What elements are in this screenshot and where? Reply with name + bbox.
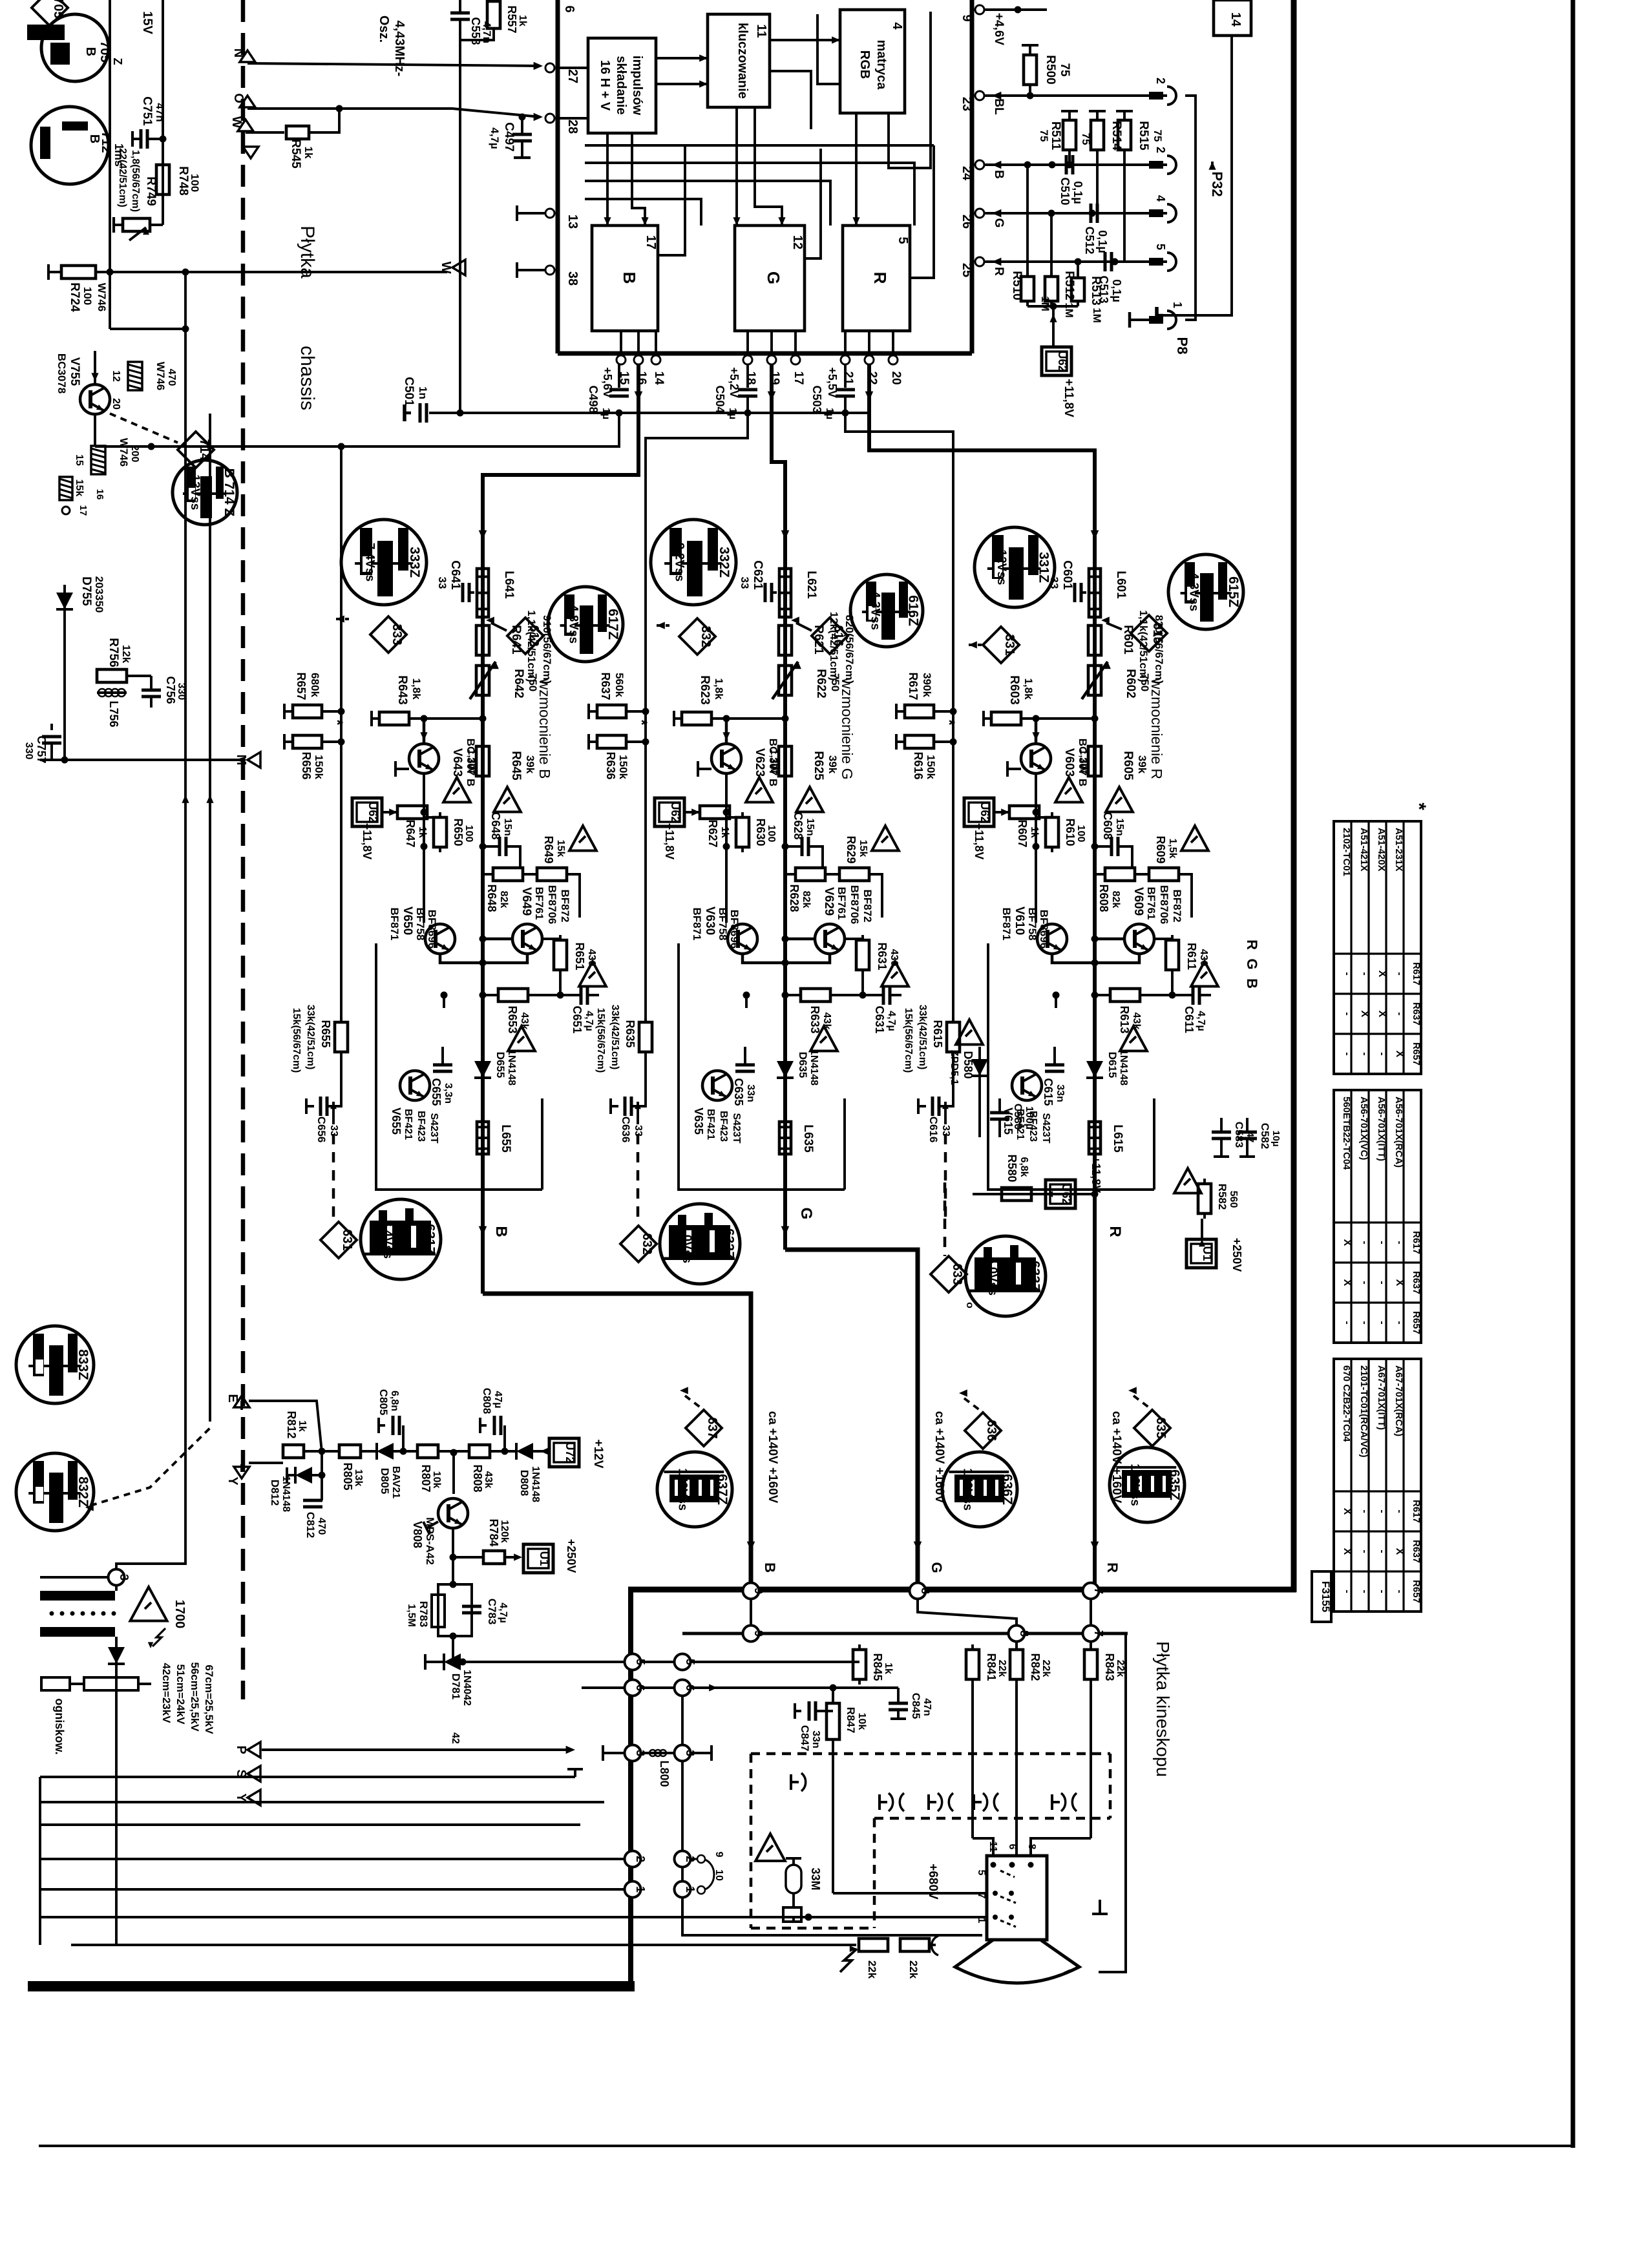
svg-text:15n: 15n [1114, 818, 1125, 836]
wire page bottom border [39, 2145, 1575, 2147]
inductor L641 [477, 569, 516, 617]
svg-text:616Z: 616Z [906, 595, 921, 626]
svg-text:820(56/67cm): 820(56/67cm) [843, 615, 856, 684]
svg-text:R616: R616 [912, 751, 925, 779]
svg-text:43k: 43k [483, 1471, 494, 1489]
svg-text:9: 9 [752, 1630, 765, 1637]
svg-text:R601: R601 [1121, 625, 1135, 655]
svg-text:R623: R623 [698, 675, 711, 704]
svg-text:C631: C631 [873, 1005, 886, 1033]
diode D635 [777, 1049, 819, 1086]
svg-text:ZPD5,1: ZPD5,1 [949, 1050, 960, 1085]
capacitor C558 [450, 0, 493, 417]
svg-text:V655: V655 [390, 1108, 403, 1135]
svg-text:BF8706: BF8706 [1158, 885, 1170, 924]
wire feedback G [646, 413, 748, 1022]
svg-text:+11,8V: +11,8V [361, 823, 374, 860]
wire dashed kineskop box [751, 1754, 1110, 1928]
svg-text:R842: R842 [1029, 1653, 1042, 1681]
svg-text:100: 100 [463, 825, 474, 843]
svg-text:1k: 1k [302, 147, 315, 159]
diamond 636 [959, 1389, 1001, 1449]
resistor R657 [284, 672, 346, 726]
wire base line B [409, 715, 487, 722]
resistor R749 [114, 148, 163, 240]
label wzmocnienie G [839, 677, 856, 779]
warning triangle kineskop [755, 1834, 785, 1861]
svg-text:1n: 1n [417, 386, 429, 399]
svg-text:+4,6V: +4,6V [992, 13, 1006, 46]
diamond 612 [486, 616, 543, 654]
diode D655 [474, 1049, 517, 1086]
potentiometer R602 [1082, 660, 1151, 700]
osc circle 333Z [341, 520, 427, 605]
IC U601 decoder right edge [970, 0, 975, 353]
capacitor C636 [611, 1057, 646, 1142]
svg-text:1: 1 [976, 1918, 987, 1924]
label wzmocnienie R [1148, 678, 1165, 779]
svg-text:R515: R515 [1137, 121, 1150, 151]
svg-text:A67-701X(ITT): A67-701X(ITT) [1376, 1365, 1387, 1430]
voltage box U1 b [523, 1539, 578, 1573]
svg-text:P: P [234, 1745, 248, 1754]
wire cathode line1 [40, 1914, 987, 1921]
osc circle 331Z [975, 527, 1055, 607]
svg-text:33: 33 [739, 577, 751, 589]
flag S [234, 1766, 260, 1781]
svg-text:42cm=23kV: 42cm=23kV [160, 1663, 173, 1723]
svg-text:BF8706: BF8706 [546, 885, 558, 924]
resistor R629 [825, 835, 882, 918]
svg-text:-: - [1359, 1281, 1370, 1284]
svg-text:+250V: +250V [565, 1539, 578, 1573]
svg-text:R649: R649 [542, 835, 555, 863]
connector 2 right [675, 1851, 697, 1867]
svg-text:C751: C751 [140, 96, 154, 126]
diamond 615 [1101, 615, 1167, 651]
svg-text:42: 42 [450, 1732, 461, 1744]
svg-text:705: 705 [51, 0, 65, 19]
svg-text:V623: V623 [753, 748, 766, 777]
svg-text:C808: C808 [481, 1388, 493, 1414]
svg-text:1k: 1k [417, 826, 428, 838]
warning triangle 1700 [131, 1587, 187, 1628]
transistor V623 [698, 719, 779, 786]
svg-text:4,7µ: 4,7µ [584, 1011, 595, 1031]
svg-text:17: 17 [78, 505, 89, 516]
resistor R545 [286, 109, 339, 169]
svg-text:3,4Vss: 3,4Vss [381, 1220, 394, 1259]
potentiometer R622 [772, 660, 841, 700]
resistor R783 parallel C783 [406, 1557, 509, 1640]
svg-text:5: 5 [896, 236, 910, 244]
block B decoder [592, 226, 658, 331]
connector 8 bottom [1009, 1626, 1031, 1642]
warning triangle B5 [508, 1026, 535, 1051]
wire cathode drop R [1031, 1838, 1091, 1857]
svg-text:4,7µ: 4,7µ [498, 1602, 509, 1622]
svg-text:680k: 680k [309, 673, 321, 697]
svg-text:B 714 Z: B 714 Z [222, 468, 237, 517]
svg-text:D635: D635 [797, 1052, 809, 1078]
svg-text:N: N [231, 48, 246, 58]
resistor focus a [41, 1677, 70, 1690]
capacitor C635 [732, 992, 756, 1106]
svg-text:F3155: F3155 [1320, 1581, 1332, 1612]
svg-text:V635: V635 [692, 1108, 705, 1135]
block H+V skladanie impulsow [588, 38, 656, 133]
svg-text:R653: R653 [506, 1005, 519, 1033]
diamond 616 [791, 616, 848, 654]
svg-text:C812: C812 [304, 1512, 317, 1538]
svg-text:C805: C805 [377, 1389, 390, 1416]
svg-text:R615: R615 [931, 1020, 944, 1047]
svg-text:22(42/51cm): 22(42/51cm) [117, 148, 128, 207]
capacitor C611 [1172, 985, 1211, 1033]
svg-text:S: S [234, 1769, 248, 1778]
svg-text:Y: Y [226, 1476, 240, 1486]
resistor R636 [589, 734, 649, 780]
wire G output stage box [679, 943, 785, 1190]
osc circle 637Z [657, 1452, 732, 1527]
wire CRT ground [1092, 1633, 1126, 1972]
diode D808 [516, 1443, 549, 1502]
svg-text:12k(42/51cm): 12k(42/51cm) [828, 612, 840, 681]
svg-text:82k: 82k [498, 891, 509, 908]
svg-text:2101-TC01(RCA/VC): 2101-TC01(RCA/VC) [1358, 1365, 1369, 1458]
diode D805 [361, 1443, 417, 1498]
svg-text:4: 4 [1154, 195, 1167, 202]
wire B channel rail [479, 530, 487, 1294]
svg-text:21: 21 [841, 371, 855, 385]
transistor V603 [1007, 719, 1089, 786]
svg-text:15k: 15k [858, 840, 869, 857]
svg-text:L621: L621 [805, 571, 818, 599]
svg-text:20: 20 [111, 398, 121, 410]
resistor R805 [339, 1445, 364, 1491]
label wzmocnienie B [536, 678, 553, 779]
CRT bell [955, 1940, 1079, 1984]
svg-text:BF758: BF758 [717, 907, 729, 940]
svg-text:4,3Vss: 4,3Vss [868, 591, 881, 630]
warning triangle R582 [1174, 1168, 1201, 1193]
flag W mid [439, 260, 465, 275]
resistor R645 [466, 741, 536, 781]
svg-text:D580: D580 [962, 1051, 975, 1078]
resistor R580 [1002, 1154, 1031, 1201]
svg-text:-: - [1394, 1321, 1405, 1324]
diode D580 ZPD51 [949, 1020, 988, 1137]
svg-text:560: 560 [1228, 1191, 1239, 1208]
svg-text:E: E [226, 1394, 240, 1402]
svg-text:332Z: 332Z [717, 547, 732, 578]
wire schematic right border [1291, 0, 1297, 1592]
transistor V649 [512, 885, 571, 954]
resistor R609 [1135, 835, 1192, 918]
svg-text:X: X [1394, 1548, 1405, 1555]
capacitor C845 [889, 1688, 933, 1719]
svg-text:R510: R510 [1010, 271, 1024, 300]
svg-text:10: 10 [713, 1869, 724, 1881]
connector 8 top [910, 1583, 933, 1599]
svg-text:1,3W: 1,3W [768, 749, 779, 773]
svg-text:R602: R602 [1124, 669, 1137, 698]
resistor 15k hatched [59, 477, 105, 516]
svg-text:+680V: +680V [926, 1864, 940, 1900]
resistor R756 [97, 638, 151, 682]
svg-text:R724: R724 [68, 282, 81, 312]
svg-text:17: 17 [644, 235, 658, 249]
wire pin1 stub [1130, 312, 1149, 328]
svg-text:C501: C501 [402, 377, 416, 406]
table 1 [1334, 803, 1429, 1074]
diamond 632 [620, 1226, 657, 1262]
svg-text:82k: 82k [801, 891, 812, 908]
flag Y2 [234, 1790, 260, 1805]
svg-text:15k(56/67cm): 15k(56/67cm) [903, 1008, 914, 1073]
osc circle 832Z [16, 1453, 94, 1531]
svg-text:39k: 39k [1136, 755, 1148, 774]
svg-text:C503: C503 [810, 385, 823, 413]
svg-text:R512: R512 [1062, 271, 1076, 300]
inductor L756 [97, 689, 127, 728]
svg-text:G: G [929, 1562, 945, 1573]
svg-text:D755: D755 [79, 576, 93, 606]
resistor R610 [1036, 812, 1086, 852]
resistor R514 [1080, 111, 1123, 213]
block G decoder [735, 226, 805, 331]
transistor V635 [692, 1071, 742, 1144]
svg-text:R629: R629 [845, 835, 858, 863]
svg-text:R641: R641 [509, 625, 523, 655]
svg-text:X: X [1394, 1279, 1405, 1286]
svg-text:617Z: 617Z [606, 609, 620, 640]
svg-text:17: 17 [792, 371, 805, 384]
warning triangle R5 [1120, 1026, 1147, 1051]
resistor R627 [700, 806, 730, 848]
wire inside IC 19 [910, 145, 934, 278]
svg-text:13: 13 [565, 215, 580, 229]
svg-text:100: 100 [766, 825, 777, 843]
svg-text:15k: 15k [555, 840, 566, 857]
svg-text:3: 3 [684, 1750, 697, 1756]
svg-text:*: * [940, 719, 958, 726]
svg-text:1: 1 [634, 1886, 647, 1893]
wire N line [231, 48, 543, 70]
svg-text:25: 25 [960, 263, 974, 277]
svg-text:1,5k: 1,5k [1167, 838, 1178, 858]
resistor R603 [984, 675, 1035, 726]
capacitor C510 [1059, 155, 1084, 205]
svg-text:20: 20 [889, 371, 903, 384]
svg-text:-: - [1394, 1241, 1405, 1244]
inductor L615 [1089, 1122, 1124, 1154]
wire O line [231, 93, 543, 121]
capacitor C513 [1097, 252, 1123, 304]
osc circle 636Z [942, 1452, 1017, 1527]
svg-text:5,0Vss: 5,0Vss [985, 1257, 999, 1296]
svg-text:R628: R628 [788, 884, 801, 912]
svg-text:R608: R608 [1097, 884, 1110, 912]
wire feedback dashed G [637, 1134, 640, 1218]
svg-text:1N4148: 1N4148 [280, 1476, 291, 1512]
svg-text:6: 6 [634, 1685, 647, 1691]
label P8 [1174, 337, 1190, 355]
svg-text:560ETB22-TC04: 560ETB22-TC04 [1341, 1097, 1352, 1170]
svg-text:U62: U62 [366, 801, 379, 823]
svg-text:V629: V629 [822, 887, 836, 916]
warning triangle B4 [579, 961, 606, 987]
svg-text:BF8706: BF8706 [848, 885, 861, 924]
svg-text:+5,6V: +5,6V [601, 367, 614, 398]
svg-text:39k: 39k [827, 755, 839, 774]
svg-text:14: 14 [1228, 12, 1243, 27]
svg-text:R514: R514 [1110, 121, 1123, 151]
svg-text:R651: R651 [573, 942, 586, 970]
svg-text:+250V: +250V [1230, 1238, 1243, 1272]
svg-text:R812: R812 [285, 1411, 298, 1438]
svg-text:+11,8V: +11,8V [663, 823, 676, 860]
svg-text:R756: R756 [107, 638, 120, 667]
wire emitter join G [743, 954, 830, 967]
capacitor C608 [1091, 812, 1133, 868]
svg-text:1: 1 [1171, 302, 1184, 308]
svg-text:1,8k: 1,8k [1022, 678, 1035, 700]
svg-text:22k: 22k [866, 1960, 878, 1979]
svg-text:18: 18 [744, 371, 757, 384]
resistor R650 [424, 812, 474, 852]
wire inside IC 3 [770, 36, 840, 43]
svg-text:14: 14 [652, 371, 666, 385]
svg-text:390k: 390k [921, 673, 933, 697]
svg-text:6,8n: 6,8n [389, 1391, 400, 1411]
wire dashed 832 [85, 1428, 210, 1511]
svg-text:R: R [870, 272, 890, 284]
svg-text:B: B [992, 170, 1006, 179]
svg-text:100µ: 100µ [1024, 1106, 1035, 1129]
warning triangle B1 [494, 787, 521, 812]
svg-text:L601: L601 [1114, 571, 1128, 599]
wire M line [40, 752, 260, 768]
svg-text:22k: 22k [996, 1660, 1007, 1677]
connector 7 top [1083, 1583, 1106, 1599]
svg-text:4,8Vss: 4,8Vss [567, 605, 580, 644]
svg-text:C845: C845 [910, 1693, 922, 1719]
label 443MHz [377, 16, 406, 76]
svg-text:47n: 47n [922, 1698, 933, 1716]
wire thick bottom-left bar [28, 1981, 635, 1991]
svg-text:BF872: BF872 [861, 889, 874, 922]
svg-text:-: - [1394, 1012, 1405, 1015]
resistor R655 [291, 1005, 348, 1073]
pin 23 BL line [960, 91, 1167, 115]
svg-text:ca +140V +160V: ca +140V +160V [933, 1411, 946, 1504]
svg-text:W: W [439, 262, 453, 274]
connector 1 left [625, 1882, 648, 1898]
svg-text:U62: U62 [669, 801, 682, 823]
svg-text:A67-701X(RCA): A67-701X(RCA) [1393, 1365, 1404, 1436]
osc circle 633Z [965, 1236, 1046, 1316]
svg-text:1k: 1k [719, 826, 730, 838]
svg-text:R645: R645 [509, 751, 523, 781]
svg-text:22k: 22k [1040, 1660, 1051, 1677]
wire bottom bus of amplifier box [628, 1587, 1296, 1593]
resistor R748 [156, 160, 201, 200]
svg-text:C651: C651 [571, 1005, 584, 1033]
wire inside IC 8 [632, 133, 649, 226]
svg-text:332: 332 [699, 625, 713, 647]
svg-text:470: 470 [166, 369, 177, 386]
svg-text:G: G [992, 218, 1006, 228]
IC U601 decoder bottom edge [558, 352, 972, 356]
wire connector bracket [1185, 96, 1196, 320]
block R decoder [843, 226, 910, 331]
svg-text:1,8k: 1,8k [410, 678, 423, 700]
wire D808 node [490, 1448, 516, 1455]
svg-text:15k(56/67cm): 15k(56/67cm) [291, 1008, 302, 1073]
svg-text:U1: U1 [1201, 1246, 1214, 1261]
osc circle 615Z [1168, 554, 1243, 629]
pin 27 [545, 63, 580, 83]
svg-text:BF421: BF421 [403, 1109, 414, 1140]
svg-text:9: 9 [960, 14, 974, 21]
svg-text:BF871: BF871 [1000, 907, 1013, 940]
wire G out bottom [785, 1098, 845, 1190]
resistor R625 [768, 741, 839, 781]
svg-text:16 H + V: 16 H + V [598, 60, 612, 111]
inductor L601 [1089, 569, 1128, 617]
transistor V629 [815, 885, 874, 954]
svg-text:75: 75 [1152, 130, 1164, 142]
svg-text:G: G [1244, 958, 1260, 969]
svg-text:U1: U1 [538, 1551, 551, 1566]
svg-text:331: 331 [1002, 634, 1017, 655]
svg-text:2: 2 [1154, 78, 1167, 84]
resistor R807 [417, 1445, 442, 1493]
svg-text:P8: P8 [1174, 337, 1190, 355]
svg-text:51cm=24kV: 51cm=24kV [174, 1664, 187, 1725]
wire dashed 633 [943, 1182, 947, 1256]
svg-text:G: G [764, 271, 783, 284]
svg-text:D812: D812 [269, 1480, 281, 1506]
wire G collector2 [782, 936, 816, 943]
svg-text:V643: V643 [450, 748, 464, 777]
voltage box U62 right [1027, 303, 1078, 418]
svg-text:-: - [1359, 1241, 1370, 1244]
svg-text:33k(42/51cm): 33k(42/51cm) [609, 1005, 620, 1070]
diode D781 [425, 1636, 582, 1706]
wire focus arc [929, 1936, 938, 1955]
inductor L621 [779, 569, 818, 617]
svg-text:1,8(56/67cm): 1,8(56/67cm) [130, 150, 141, 212]
svg-text:R613: R613 [1118, 1005, 1131, 1033]
svg-text:R657: R657 [295, 672, 308, 700]
svg-text:635Z: 635Z [1167, 1469, 1182, 1500]
pin 25 R line [960, 257, 1167, 277]
resistor R843 [1084, 1641, 1126, 1838]
osc circle 632Z [660, 1204, 740, 1284]
warning triangle B2 [443, 777, 470, 803]
capacitor C847 [795, 1701, 833, 1751]
osc circle 635Z [1110, 1447, 1185, 1522]
IC circle B705 [27, 14, 124, 81]
svg-text:Płytka: Płytka [297, 226, 318, 278]
svg-text:S423T: S423T [1040, 1113, 1051, 1143]
warning triangle G1 [796, 787, 823, 812]
wire inside IC 4 [770, 71, 811, 129]
voltage box U72 [549, 1438, 605, 1469]
svg-text:C611: C611 [1183, 1006, 1196, 1033]
